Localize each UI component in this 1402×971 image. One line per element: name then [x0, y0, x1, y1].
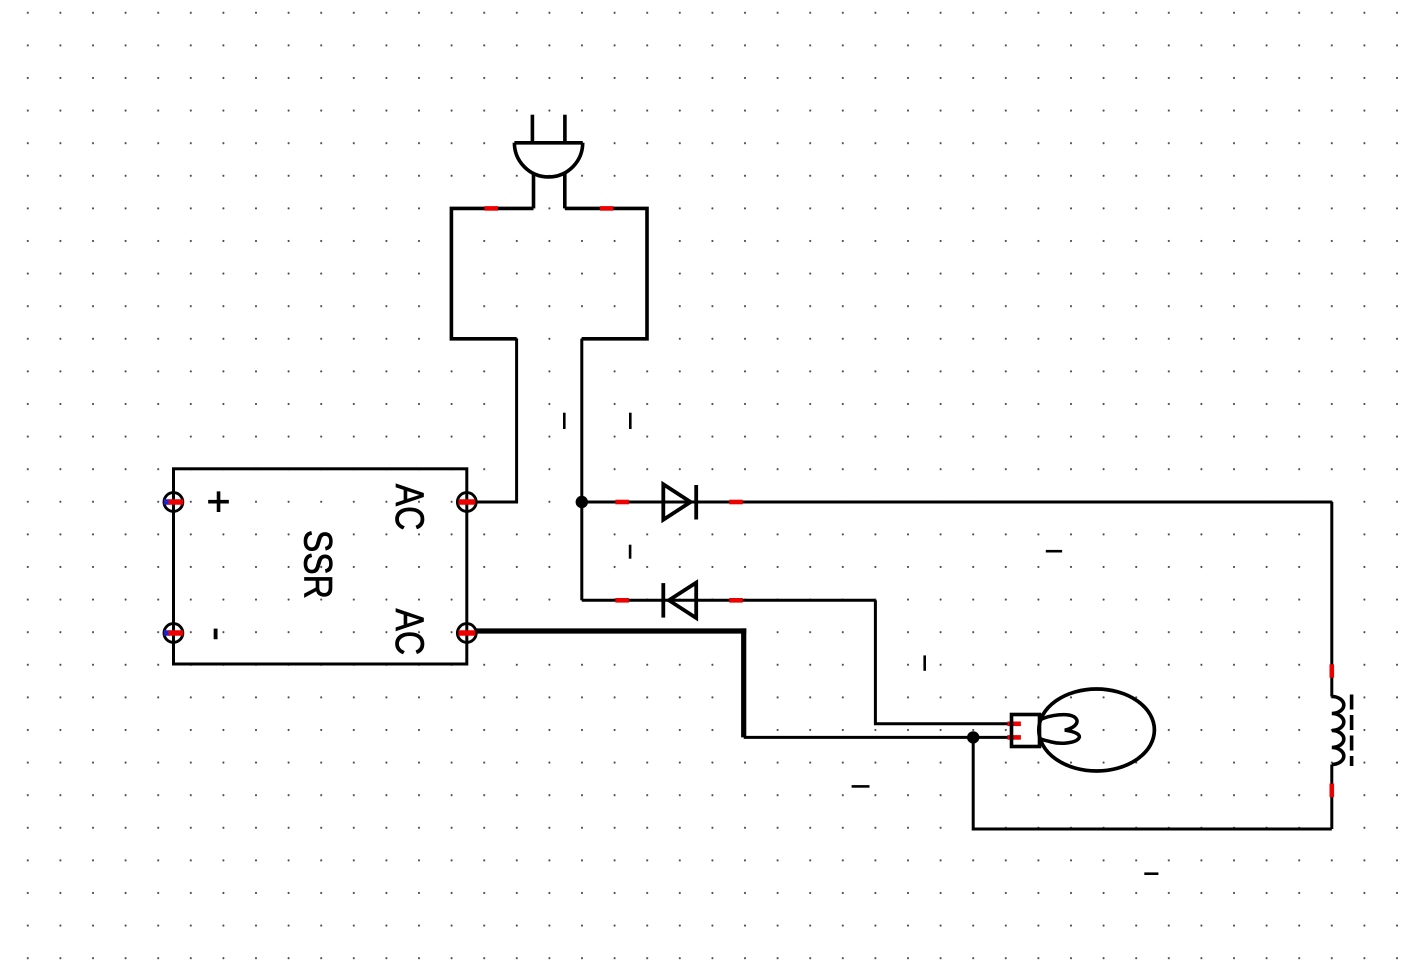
net dash label below bottom wire [1144, 872, 1158, 875]
svg-text:SSR: SSR [296, 530, 340, 599]
AC plug P1 stem right [563, 173, 567, 209]
plug pin 1 red lead [485, 206, 499, 211]
diode D1 cathode red lead [729, 500, 743, 505]
node B junction dot [967, 731, 979, 743]
svg-text:AC: AC [387, 608, 431, 655]
wire node B down and right along bottom [973, 737, 1332, 829]
lamp LA1 bulb [1039, 689, 1155, 771]
AC plug P1 prongs [532, 115, 565, 143]
wire right side down to inductor [1330, 502, 1333, 697]
wire D2 row horizontal [582, 599, 876, 602]
lamp LA1 socket [1012, 715, 1040, 747]
lamp LA1 filament [1040, 715, 1080, 744]
node label 1 above lamp wire [923, 655, 926, 670]
SSR terminal AC2 [457, 624, 476, 643]
AC plug P1 stem left [532, 173, 536, 209]
lamp LA1 pin 2 red lead [1007, 735, 1021, 740]
wire node A down to diode D2 row [580, 502, 583, 600]
SSR terminal minus (-) [164, 624, 183, 643]
plug pin 2 red lead [600, 206, 614, 211]
diode D2 [663, 583, 696, 618]
AC plug P1 body rectangle [451, 208, 647, 338]
net dash label right of diodes [1046, 550, 1062, 553]
node label 1 near plug right leg [629, 413, 632, 429]
wire to node B [744, 736, 974, 739]
node label 1 below node A [629, 545, 632, 559]
svg-text:AC: AC [387, 484, 431, 531]
inductor L1 core dashed line [1350, 695, 1354, 767]
wire node A to diode D1 and right to inductor corner [582, 501, 1332, 504]
svg-text:+: + [196, 490, 242, 514]
node label 1 near plug left leg [563, 413, 566, 429]
diode D2 anode red lead [729, 598, 743, 603]
SSR U1 box [174, 469, 467, 664]
diode D1 anode red lead [615, 500, 629, 505]
net dash label below AC2 wire [852, 785, 870, 788]
SSR terminal plus (+) [164, 493, 183, 512]
wire D2 to lamp: down and right [875, 600, 1011, 724]
inductor L1 coil [1332, 697, 1344, 765]
node A junction dot [576, 496, 588, 508]
wire plug left leg down to SSR AC1 [476, 339, 517, 502]
inductor L1 pin 2 red lead [1330, 784, 1335, 798]
inductor L1 pin 1 red lead [1330, 664, 1335, 677]
wire plug right leg down to node A [580, 339, 583, 502]
wire AC2 vertical down [741, 628, 746, 737]
svg-text:-: - [196, 627, 242, 641]
diode D2 cathode red lead [615, 598, 629, 603]
SSR terminal AC1 [457, 493, 476, 512]
wire SSR AC2 thick horizontal [476, 628, 746, 633]
lamp LA1 pin 1 red lead [1007, 721, 1021, 726]
wire inductor bottom [1330, 765, 1333, 830]
diode D1 [663, 484, 696, 519]
wire node B to lamp bottom pin [973, 736, 1011, 739]
AC plug P1 dome [514, 143, 582, 177]
